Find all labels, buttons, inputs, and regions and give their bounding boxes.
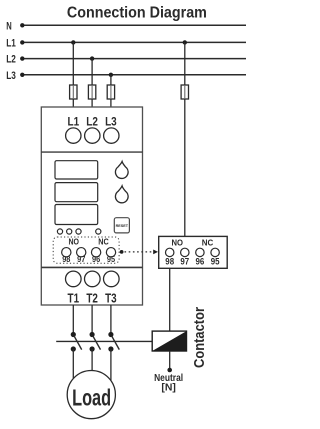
node N start dot (20, 23, 24, 27)
terminal circle L1 (66, 128, 81, 143)
terminal circle T3 (104, 271, 120, 287)
junction L2 phase tap (90, 56, 94, 60)
contact circle 97 (77, 248, 86, 257)
node L3 start dot (20, 73, 24, 77)
wire phase drop 2 (91, 59, 93, 107)
svg-text:NO: NO (171, 237, 183, 247)
display window 3 (55, 205, 98, 225)
fuse F1 (70, 85, 77, 99)
wire phase drop 1 (72, 42, 74, 107)
fuse F4 control (181, 85, 188, 99)
led indicator 3 (76, 229, 81, 234)
wire T2 out (91, 305, 93, 333)
external contact circle 96 (196, 248, 204, 256)
wire dotted link (125, 251, 153, 253)
svg-text:T2: T2 (86, 291, 98, 305)
contact circle 95 (106, 248, 115, 257)
device bottom section divider (41, 266, 142, 268)
wire control drop (184, 42, 186, 236)
display window 2 (55, 183, 98, 202)
wire L1 line (22, 41, 246, 43)
svg-text:L1: L1 (68, 117, 80, 129)
svg-text:98: 98 (165, 257, 174, 267)
wire L2 line (22, 58, 246, 60)
svg-text:RESET: RESET (116, 223, 129, 228)
wire block to coil (169, 268, 171, 331)
reset button (114, 218, 129, 233)
load circle (67, 371, 115, 419)
wire load 1 (72, 349, 74, 379)
svg-text:L2: L2 (86, 117, 98, 129)
svg-text:[N]: [N] (161, 383, 176, 394)
terminal circle T1 (66, 271, 82, 287)
droplet icon 1 (115, 162, 128, 179)
contact circle 96 (91, 248, 100, 257)
external contact circle 95 (211, 248, 219, 256)
terminal circle T2 (85, 271, 101, 287)
svg-text:97: 97 (180, 257, 189, 267)
external contact circle 97 (181, 248, 189, 256)
fuse F2 (88, 85, 95, 99)
svg-text:98: 98 (62, 255, 71, 264)
svg-text:96: 96 (196, 257, 205, 267)
svg-text:L3: L3 (105, 117, 117, 129)
led indicator 1 (57, 229, 62, 234)
svg-text:97: 97 (77, 255, 86, 264)
terminal circle L3 (104, 128, 119, 143)
fuse F3 (107, 85, 114, 99)
node L1 start dot (20, 40, 24, 44)
contactor linkage bar (56, 340, 152, 342)
svg-text:NO: NO (69, 238, 80, 247)
contactor coil box (152, 331, 186, 351)
device top section divider (41, 151, 142, 153)
terminal circle L2 (85, 128, 100, 143)
device relay body outline (41, 107, 142, 305)
relay contact dashed box (53, 237, 119, 263)
junction L1 control tap (183, 40, 187, 44)
node dotted link start dot (120, 250, 124, 254)
wire L3 line (22, 74, 246, 76)
svg-text:N: N (6, 21, 12, 33)
led indicator 2 (67, 229, 72, 234)
svg-text:96: 96 (92, 255, 101, 264)
svg-text:NC: NC (98, 238, 109, 247)
wire T1 out (72, 305, 74, 333)
svg-text:Load: Load (72, 384, 111, 410)
wire phase drop 3 (110, 75, 112, 107)
wire T3 out (110, 305, 112, 333)
svg-text:NC: NC (202, 237, 214, 247)
dotted link arrowhead (153, 250, 158, 255)
svg-text:Connection Diagram: Connection Diagram (67, 4, 207, 21)
svg-text:L3: L3 (6, 70, 16, 82)
svg-text:T1: T1 (68, 291, 80, 305)
droplet icon 2 (115, 186, 128, 203)
contactor pole 2 (90, 332, 95, 337)
contactor pole 3 (108, 332, 113, 337)
svg-text:Contactor: Contactor (192, 307, 208, 368)
display window 1 (55, 161, 98, 179)
wire load 3 (110, 349, 112, 381)
svg-text:L2: L2 (6, 54, 16, 66)
junction L3 phase tap (109, 73, 113, 77)
svg-text:L1: L1 (6, 38, 16, 50)
external contact circle 98 (166, 248, 174, 256)
node neutral dot (167, 368, 172, 373)
svg-text:T3: T3 (105, 291, 117, 305)
wire N line (22, 24, 246, 26)
wire load 2 (91, 349, 93, 371)
junction L1 phase tap (71, 40, 75, 44)
svg-text:95: 95 (107, 255, 116, 264)
svg-text:95: 95 (211, 257, 220, 267)
led indicator 4 (96, 229, 101, 234)
wire coil to neutral (169, 351, 171, 369)
external contact block (159, 236, 228, 268)
contactor pole 1 (71, 332, 76, 337)
contact circle 98 (62, 248, 71, 257)
node L2 start dot (20, 56, 24, 60)
